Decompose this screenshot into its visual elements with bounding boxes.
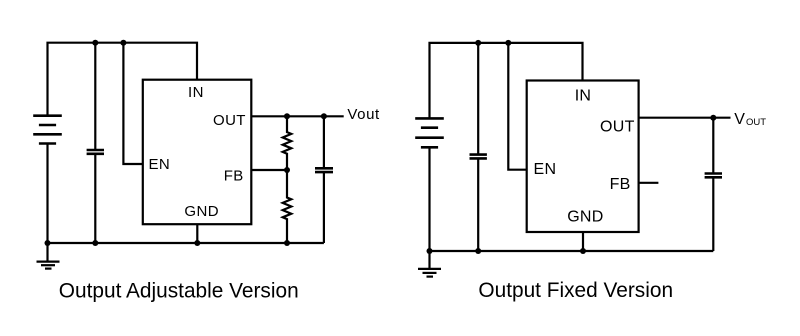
wire GND pin (196, 224, 198, 243)
junction C3 top rail (475, 40, 481, 46)
wire EN from top rail (508, 43, 526, 170)
junction C3 bottom rail (475, 248, 481, 254)
wire bottom rail right (430, 250, 714, 252)
capacitor C3 (477, 43, 479, 155)
svg-text:OUT: OUT (213, 112, 246, 129)
svg-text:IN: IN (188, 84, 204, 101)
ground (428, 251, 430, 269)
wire top rail left with battery stem and IN drop (48, 43, 198, 116)
wire top rail right with battery stem and IN drop (430, 43, 583, 119)
junction GND pin bottom rail (194, 240, 200, 246)
battery BT2 (415, 118, 444, 147)
wire battery to bottom rail (46, 144, 48, 244)
svg-text:IN: IN (575, 88, 592, 105)
svg-text:OUT: OUT (600, 119, 635, 136)
resistor R1 (283, 116, 292, 170)
junction battery bottom rail (45, 240, 51, 246)
junction C4 OUT rail (710, 115, 716, 121)
wire bottom rail left (48, 242, 324, 244)
resistor R2 (283, 170, 292, 243)
svg-text:V: V (734, 111, 745, 128)
junction FB node (284, 167, 290, 173)
pin labels left box (149, 84, 246, 220)
svg-text:GND: GND (184, 203, 219, 220)
battery BT1 (33, 116, 62, 144)
capacitor C2 (323, 116, 325, 168)
capacitor C4 (712, 118, 714, 174)
svg-text:EN: EN (149, 156, 171, 173)
svg-text:Vout: Vout (347, 106, 380, 123)
junction GND pin bottom rail (580, 248, 586, 254)
wire OUT pin (639, 117, 731, 119)
svg-text:FB: FB (224, 168, 244, 185)
op-amp U1 (regulator box) (143, 80, 252, 225)
op-amp U2 (regulator box) (527, 81, 639, 233)
junction C2 OUT rail (321, 113, 327, 119)
ground (46, 243, 48, 262)
pin labels right box (534, 88, 635, 226)
junction EN top rail (120, 40, 126, 46)
wire FB pin (251, 169, 287, 171)
svg-text:GND: GND (567, 209, 603, 226)
svg-text:OUT: OUT (746, 117, 766, 128)
svg-text:EN: EN (534, 161, 557, 178)
svg-text:Output Adjustable Version: Output Adjustable Version (59, 279, 299, 302)
junction EN top rail (505, 40, 511, 46)
svg-text:FB: FB (610, 176, 631, 193)
svg-text:Output Fixed Version: Output Fixed Version (478, 279, 673, 302)
junction C1 bottom rail (92, 240, 98, 246)
wire OUT pin (251, 115, 343, 117)
junction R1 OUT rail (284, 113, 290, 119)
junction battery bottom rail (427, 248, 433, 254)
junction C1 top rail (92, 40, 98, 46)
junction R2 bottom rail (284, 240, 290, 246)
wire EN from top rail (123, 43, 142, 164)
wire GND pin (582, 232, 584, 251)
wire battery to bottom rail (428, 147, 430, 251)
wire FB stub (639, 182, 659, 184)
capacitor C1 (94, 43, 96, 150)
